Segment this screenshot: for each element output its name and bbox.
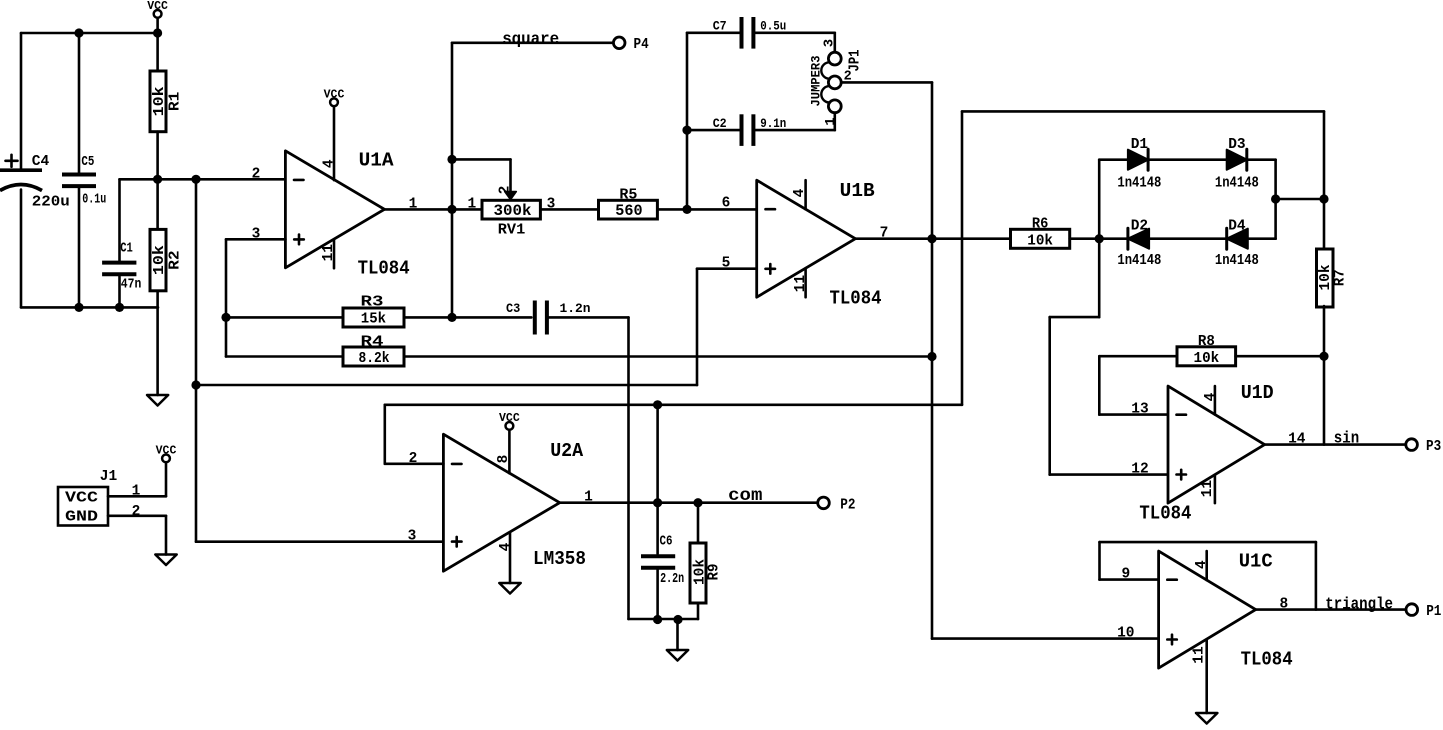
diode D2 1n4148 [1117,219,1161,270]
resistor R2 10k [150,229,184,290]
wire com feedback riser [961,111,964,404]
wire C3 down to ground row [627,317,630,619]
svg-text:1n4148: 1n4148 [1215,253,1259,269]
wire U1B output to R6 [855,237,1010,240]
wire C7 right lead [755,31,835,34]
wire R8 right lead [1236,355,1324,358]
node junction C1 bottom [115,303,124,312]
svg-text:TL084: TL084 [830,287,882,309]
node junction divider tap row [191,380,200,389]
wire ground row C3/C6/R9 [629,618,699,621]
wire com net output row [560,501,818,504]
wire U1C feedback top [1100,541,1316,544]
connector J1 [58,469,118,526]
node junction C5 bottom [74,303,83,312]
svg-text:4: 4 [1203,392,1219,401]
node junction C6 top [653,498,662,507]
svg-text:3: 3 [408,529,417,545]
resistor R7 10k [1317,249,1349,307]
wire RV1 to R5 [540,208,598,211]
svg-text:R4: R4 [361,334,384,350]
svg-text:300k: 300k [494,202,532,220]
svg-text:D3: D3 [1228,137,1245,153]
svg-text:560: 560 [615,202,642,220]
svg-text:9.1n: 9.1n [760,116,786,131]
wire R3 left lead [226,316,343,319]
node junction R4 column [927,352,936,361]
ground (below R2) [147,395,168,406]
wire C1 top lead [118,179,121,261]
svg-text:10k: 10k [1027,232,1053,249]
wire J1 pin1 [108,495,166,498]
svg-text:11: 11 [1192,646,1208,664]
wire U1D pin12 column [1048,317,1051,475]
wire diode node to U1D pin12 jog [1050,316,1100,319]
diode D4 1n4148 [1215,219,1259,270]
svg-text:1n4148: 1n4148 [1117,176,1161,192]
wire C2 right lead [755,129,835,132]
ground (below C6/R9) [667,650,688,661]
op-amp U1B TL084 [757,180,882,309]
svg-text:1: 1 [468,196,477,212]
node junction diode input node [1095,234,1104,243]
wire RV1 wiper branch [452,158,511,161]
wire sin output row [1265,443,1405,446]
wire U1C pin4 stub [1205,551,1208,580]
svg-text:12: 12 [1131,462,1148,478]
wire U2A pin8 stub to VCC [508,430,511,474]
wire triangle output row [1256,608,1405,611]
svg-text:U1A: U1A [359,150,395,172]
diode D1 1n4148 [1117,137,1161,192]
wire C5 bottom lead [78,188,81,307]
wire D1 anode lead [1099,158,1128,161]
svg-text:8: 8 [496,455,512,464]
wire U1D pin13 row [1099,413,1168,416]
wire R4 right lead to U1B output node [404,355,932,358]
svg-text:R8: R8 [1198,334,1215,350]
wire U1C feedback left vertical [1098,542,1101,580]
wire C6 bottom lead [656,569,659,619]
wire C7/C2 branch vertical [686,33,689,210]
op-amp U2A LM358 [443,434,586,571]
svg-text:R2: R2 [168,250,184,270]
svg-text:11: 11 [793,275,809,293]
potentiometer RV1 300k [468,186,556,239]
node junction tap to U2A pin3 [191,175,200,184]
jumper JP1 JUMPER3 [809,39,864,126]
diode D3 1n4148 [1215,137,1259,192]
svg-text:triangle: triangle [1325,596,1393,615]
node junction R8/R7 [1319,352,1328,361]
wire divider column to U2A pin3 [195,179,198,541]
node junction C2 branch [682,126,691,135]
wire com feedback top row [962,110,1324,113]
wire U2A feedback vertical [383,405,386,464]
wire R9 bottom lead [697,603,700,619]
node junction R3 tap [221,313,230,322]
wire U2A feedback row [385,403,962,406]
wire U1C pin11 stub to ground [1205,639,1208,713]
wire U1A output to RV1 [385,208,483,211]
svg-text:10k: 10k [152,245,168,275]
wire VCC stub to top rail [156,18,159,33]
resistor R8 10k [1177,334,1236,367]
svg-text:D4: D4 [1228,219,1246,235]
connector P4 [613,37,649,53]
svg-text:TL084: TL084 [1139,502,1191,524]
wire U1D pin12 row [1050,473,1168,476]
op-amp U1A TL084 [285,150,409,280]
svg-text:3: 3 [822,39,838,47]
svg-text:R9: R9 [707,564,723,581]
wire U2A pin2 input [385,462,444,465]
wire square net vertical [451,43,454,318]
svg-text:C7: C7 [713,19,727,34]
node junction square-net to R3/C3 [447,313,456,322]
wire right column (JP1 pin2 down to U1C pin10) [931,82,934,638]
svg-text:4: 4 [1194,560,1210,569]
svg-text:2: 2 [132,504,141,520]
svg-text:9: 9 [1121,567,1130,583]
wire C7 left lead [687,31,740,34]
wire R8 to pin13 vertical [1098,356,1101,414]
wire J1 pin2 [108,514,166,517]
svg-text:VCC: VCC [147,0,168,13]
svg-text:R7: R7 [1333,269,1349,286]
svg-text:C2: C2 [713,116,727,131]
wire C7 to JP1 pin3 [833,33,836,52]
wire C6 top lead [656,405,659,554]
wire C5 top lead [78,33,81,173]
svg-text:10k: 10k [152,86,168,116]
capacitor C1 47n [102,242,141,293]
svg-text:8.2k: 8.2k [359,351,390,367]
svg-text:1: 1 [823,117,839,125]
wire square net to P4 [452,41,613,44]
svg-text:4: 4 [792,188,808,197]
wire C2 left lead [687,129,740,132]
wire U1B pin4 stub [804,180,807,209]
op-amp U1C TL084 [1159,551,1293,671]
wire R1 bottom lead [156,132,159,180]
resistor R5 560 [599,188,658,221]
wire U2A pin4 stub to ground [509,533,512,583]
wire R9 top lead [697,503,700,543]
svg-text:10k: 10k [1194,350,1220,367]
svg-text:11: 11 [1200,480,1216,498]
ground (U2A pin4) [499,583,520,594]
svg-text:R3: R3 [361,294,384,310]
node junction C6 bottom [653,615,662,624]
svg-text:4: 4 [322,159,338,168]
svg-text:C1: C1 [120,242,133,257]
wire C4 bottom lead [20,190,23,308]
resistor R1 10k [150,71,184,132]
svg-text:J1: J1 [100,469,118,485]
svg-text:15k: 15k [361,311,386,327]
wire R8 left lead [1099,355,1177,358]
svg-text:TL084: TL084 [358,258,410,280]
wire U1D pin11 stub [1214,475,1217,503]
svg-text:1n4148: 1n4148 [1215,176,1259,192]
power symbol VCC (U1A pin4) [324,89,345,107]
capacitor C3 1.2n [506,301,591,335]
wire D4 anode lead [1248,237,1276,240]
svg-text:P4: P4 [634,37,649,53]
wire R7 top lead [1323,111,1326,249]
wire D2 cathode lead [1099,237,1128,240]
wire node A row (pin2 net) [120,178,286,181]
node junction wiper tap [447,155,456,164]
wire U1B pin5 input [697,267,757,270]
node junction square-net main row [447,205,456,214]
svg-text:11: 11 [321,244,337,262]
node junction C2/C7 branch [682,205,691,214]
svg-text:R6: R6 [1032,217,1049,233]
node junction R1 top rail [153,28,162,37]
capacitor C4 (polarized 220u) [0,153,70,210]
wire JP1 pin2 to right column [841,81,932,84]
op-amp U1D TL084 [1139,382,1273,524]
svg-text:U1C: U1C [1239,551,1273,573]
resistor R3 15k [343,294,404,327]
svg-text:TL084: TL084 [1241,648,1293,670]
wire U1C pin10 row [932,637,1159,640]
svg-text:U2A: U2A [550,440,584,462]
svg-text:2: 2 [498,186,514,195]
node junction R9 top [693,498,702,507]
svg-text:D2: D2 [1131,219,1148,235]
wire R2 bottom lead to ground [156,291,159,395]
svg-text:R1: R1 [168,91,184,111]
wire R2 top lead [156,179,159,229]
svg-text:VCC: VCC [324,89,345,102]
wire R6 to diode node [1070,237,1100,240]
resistor R6 10k [1011,217,1070,250]
svg-text:4: 4 [498,542,514,551]
capacitor C7 0.5u [713,17,787,49]
svg-text:C5: C5 [81,155,94,170]
svg-text:VCC: VCC [65,491,98,507]
resistor R4 8.2k [343,334,404,367]
svg-text:JP1: JP1 [848,49,864,71]
svg-text:C6: C6 [660,534,673,549]
svg-text:2.2n: 2.2n [660,572,684,587]
wire U2A pin3 row [196,540,443,543]
resistor R9 10k [690,543,723,603]
svg-text:LM358: LM358 [533,548,586,570]
node junction ground stub [673,615,682,624]
svg-text:com: com [728,486,762,506]
svg-text:P2: P2 [840,498,855,514]
svg-text:2: 2 [252,166,261,182]
wire vertical to R3/R4 [225,239,228,356]
svg-text:6: 6 [722,196,731,212]
wire J1 pin2 to ground [165,516,168,555]
wire top rail C4-C5-R1 [21,32,158,35]
wire R1 top lead [156,33,159,71]
wire C3 right lead [549,316,629,319]
svg-text:0.5u: 0.5u [760,19,786,34]
wire diode branch vertical [1098,160,1101,317]
wire pin5 feedback row [196,384,697,387]
wire R3 to C3 [404,316,531,319]
wire diode output link [1276,198,1324,201]
ground (U1C pin11) [1196,713,1217,724]
node junction R1/R2 divider [153,175,162,184]
svg-text:C4: C4 [32,153,50,170]
svg-text:0.1u: 0.1u [82,193,106,208]
svg-text:10: 10 [1117,626,1134,642]
svg-text:VCC: VCC [499,412,520,425]
wire U1A pin4 stub to VCC [333,106,336,180]
node junction R7 column [1319,194,1328,203]
wire D3 cathode lead [1247,158,1276,161]
connector P2 [818,497,856,513]
svg-text:C3: C3 [506,301,520,316]
wire D1 to D3 [1148,158,1227,161]
svg-text:RV1: RV1 [498,223,526,239]
svg-text:JUMPER3: JUMPER3 [809,55,824,106]
wire ground stub [676,619,679,650]
connector P1 [1406,604,1442,620]
wire U1A pin11 stub [333,240,336,269]
node junction U1B output column [927,234,936,243]
svg-text:1: 1 [132,483,141,499]
svg-text:U1D: U1D [1241,382,1274,404]
wire D2 to D4 [1149,237,1227,240]
wire VCC stub J1 [165,462,168,496]
wire R7 bottom lead [1323,306,1326,445]
svg-text:D1: D1 [1131,137,1149,153]
wire C1 bottom lead [118,277,121,308]
wire U1A pin3 input [226,238,285,241]
power symbol VCC (top of R1) [147,0,168,18]
svg-text:U1B: U1B [840,180,875,202]
svg-text:47n: 47n [121,278,142,293]
wire U1C pin9 row [1100,578,1159,581]
svg-text:1n4148: 1n4148 [1117,253,1161,269]
svg-text:square: square [502,30,559,49]
node junction feedback/C6 tap [653,400,662,409]
svg-text:13: 13 [1131,402,1148,418]
power symbol VCC (J1) [156,445,177,463]
wire RV1 wiper vertical [509,159,512,190]
svg-text:VCC: VCC [156,445,177,458]
wire R4 left lead [226,355,343,358]
svg-text:P3: P3 [1426,439,1441,455]
svg-text:sin: sin [1334,430,1359,449]
node junction C5 top rail [74,28,83,37]
svg-text:GND: GND [65,510,98,526]
capacitor C2 9.1n [713,114,787,146]
power symbol VCC (U2A pin8) [499,412,520,430]
ground (J1) [155,555,176,566]
capacitor C6 2.2n [641,534,684,587]
wire U1D pin4 stub [1214,386,1217,414]
wire U1C feedback right vertical [1315,542,1318,610]
wire R5 to U1B pin6 [657,208,756,211]
node junction diode output [1271,194,1280,203]
svg-text:1.2n: 1.2n [560,301,591,316]
wire U1B pin11 stub [804,268,807,297]
capacitor C5 0.1u [62,155,106,208]
wire diode output vertical [1274,160,1277,239]
svg-text:P1: P1 [1426,604,1441,620]
wire C2 to JP1 pin1 [833,113,836,130]
wire bottom rail C4-C5-C1-R2 [21,306,158,309]
svg-text:220u: 220u [32,193,70,210]
wire pin5 vertical [696,269,699,385]
wire C4 top lead [20,33,23,170]
connector P3 [1406,439,1441,455]
